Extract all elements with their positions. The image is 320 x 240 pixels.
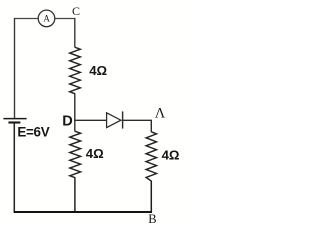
- wire: D to diode anode: [74, 119, 106, 121]
- svg-text:A: A: [43, 13, 50, 23]
- svg-text:Λ: Λ: [155, 105, 166, 121]
- wire: R1 to node D junction: [74, 93, 76, 131]
- battery cell E short plate: [8, 121, 20, 123]
- svg-text:B: B: [148, 212, 156, 226]
- ammeter A1: [38, 10, 55, 27]
- resistor R1 4ohm: [70, 47, 81, 93]
- diode D1 triangle: [107, 113, 121, 128]
- wire top: left corner to C corner: [15, 18, 75, 20]
- wire: diode cathode to node A corner: [123, 119, 152, 121]
- wire: left vertical down to battery: [14, 18, 16, 118]
- wire: A corner down to R3: [150, 120, 152, 132]
- wire: R2 to bottom wire: [74, 178, 76, 213]
- resistor R3 4ohm (right): [146, 132, 156, 181]
- wire: battery to bottom left corner: [13, 124, 15, 213]
- resistor R2 4ohm (lower middle): [70, 131, 81, 177]
- svg-text:C: C: [72, 4, 80, 18]
- wire: R3 to bottom right corner: [150, 181, 152, 213]
- svg-text:4Ω: 4Ω: [89, 63, 107, 78]
- wire bottom: B to left corner: [14, 211, 152, 213]
- battery cell E long plate: [3, 118, 26, 120]
- svg-text:D: D: [62, 113, 72, 129]
- diode D1 cathode bar: [122, 111, 124, 128]
- wire: middle vertical from C corner to R1: [74, 18, 76, 48]
- svg-text:4Ω: 4Ω: [162, 147, 180, 162]
- svg-text:E=6V: E=6V: [17, 124, 49, 139]
- svg-text:4Ω: 4Ω: [86, 146, 104, 161]
